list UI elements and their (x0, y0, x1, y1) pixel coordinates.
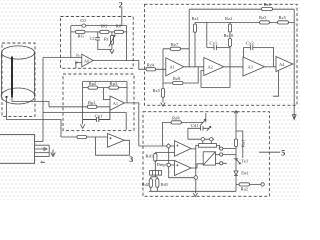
box 2 (charge amplifier) dashed border (61, 17, 134, 69)
svg-text:In: In (76, 54, 79, 58)
wire: comp1 output to block (191, 145, 199, 175)
Rd4 adjust arrow (200, 119, 206, 126)
wire: divider bottoms to rail (151, 187, 158, 191)
wire: ref to divider split (151, 175, 158, 179)
svg-text:A1: A1 (170, 65, 175, 70)
ground under Rf (98, 47, 114, 54)
resistor Rp1 (87, 105, 97, 108)
capacitor Cp1 wire (83, 107, 110, 122)
wire: box4 column left (Rz5 chain) (162, 49, 164, 103)
wire: A0 output to box4 via Rz4 (93, 61, 166, 70)
wire: rail up to column (235, 184, 237, 191)
wire: outer electrode down and under to follower (7, 97, 62, 137)
svg-text:Rz3: Rz3 (259, 15, 267, 20)
wire: box3 left riser (82, 82, 84, 125)
wire: Rz2/Rz10 chain (201, 22, 230, 87)
driver tiny mark (41, 161, 46, 163)
resistor Rp2 (88, 86, 98, 89)
svg-text:Dmp1: Dmp1 (157, 162, 169, 167)
wire: A3 output to A4 (265, 66, 277, 68)
wire: bottom rail (149, 190, 236, 192)
wire: row T top (189, 8, 294, 10)
svg-text:C0: C0 (80, 18, 86, 23)
svg-text:Rd2: Rd2 (142, 182, 149, 187)
svg-text:CG: CG (90, 36, 97, 41)
wire: Rd4 row (162, 121, 203, 123)
svg-text:Rf: Rf (104, 36, 109, 41)
wire: A4 output and output arrow (292, 9, 296, 119)
Cd1 end tick (207, 126, 211, 131)
svg-text:A1: A1 (113, 101, 118, 106)
wire: comp1 lower input / Rd1 top (155, 152, 174, 154)
svg-text:Rd1: Rd1 (146, 154, 154, 159)
svg-text:2: 2 (119, 0, 123, 9)
svg-text:Rz5: Rz5 (279, 15, 287, 20)
wire: collector branch (236, 131, 243, 158)
ground under Rz5 (161, 103, 165, 107)
capacitor Cy1 feedback (207, 45, 230, 50)
resistor Rd2 vertical (149, 179, 152, 188)
svg-text:Cy2: Cy2 (246, 41, 254, 46)
wire: circle to rail (195, 179, 197, 191)
comp2 plus mark (176, 164, 178, 166)
svg-text:In: In (75, 61, 78, 65)
comp1 plus mark (176, 144, 178, 146)
wire: label-5 leader (259, 151, 280, 153)
svg-text:Rp2: Rp2 (89, 81, 97, 86)
follower op-amp below box3 (108, 134, 125, 148)
wire: row S (195, 21, 294, 23)
wire: column mid (235, 147, 237, 171)
driver pin wire 5 (35, 156, 50, 158)
wire: block-2 leader line (121, 8, 123, 26)
svg-text:3: 3 (129, 155, 133, 164)
node circle P1 (201, 138, 204, 141)
wire: flat block to circle and column (217, 145, 237, 148)
driver pin bus vertical (48, 145, 50, 156)
follower input resistor (77, 135, 87, 138)
wire: supply drop to column (235, 118, 237, 140)
capacitor C0 (82, 24, 86, 27)
resistor R0 (114, 30, 123, 33)
svg-text:Rp3: Rp3 (110, 81, 118, 86)
wire: box5 left riser (161, 122, 163, 146)
wire: switch outputs (215, 155, 236, 164)
svg-text:A0: A0 (84, 58, 89, 63)
driver pin wire 2 (35, 144, 50, 146)
svg-text:Rz2: Rz2 (225, 16, 233, 21)
diode De1 (234, 171, 238, 184)
wire: box3 input row Rp1 (49, 106, 110, 108)
comparator U1 (175, 141, 192, 156)
svg-text:Te1: Te1 (241, 159, 249, 164)
svg-text:Ra1: Ra1 (241, 139, 246, 147)
op-amp A3 (243, 57, 265, 76)
wire: diamond input row (139, 145, 167, 147)
wire: right feedback drop box2 (126, 26, 128, 61)
resistor Rz10 vertical (228, 39, 231, 47)
resistor Rz4 (146, 68, 156, 71)
sensor cylinder top ellipse (2, 46, 35, 59)
svg-text:Rd3: Rd3 (161, 182, 168, 187)
op-amp A0 (82, 54, 93, 67)
wire: center electrode to box3 input (12, 97, 49, 107)
svg-text:R0: R0 (116, 24, 122, 29)
resistor Rz2 vertical (228, 24, 231, 32)
resistor Rf (trimmer) (109, 32, 115, 50)
wire: A0 input line (43, 57, 82, 59)
capacitor CG (96, 32, 100, 47)
switch block with diagonal (203, 152, 215, 165)
sensor cylinder side walls (2, 53, 35, 97)
node circle sw2 (220, 162, 223, 165)
wire: long horizontal mid (43, 113, 126, 130)
wire: Rz8 row (163, 67, 198, 83)
resistor Rd1 vertical (154, 153, 157, 161)
op-amp A1 (box4) (166, 58, 184, 76)
capacitor Cd1 row (188, 126, 209, 139)
svg-text:Rz5: Rz5 (153, 88, 161, 93)
wire: diamond to comparator1 (171, 145, 175, 147)
resistor RG (left) (76, 30, 86, 33)
sensor cylinder bottom ellipse (1, 88, 35, 104)
wire: comp2 output to switch block (191, 164, 203, 168)
wire: block risers to circles (203, 141, 212, 144)
wire: sensor guard vertical to A0 and down (42, 58, 44, 142)
wire: left riser box2 (70, 26, 72, 58)
resistor Re2 (239, 183, 250, 186)
resistor Rz9 (278, 21, 289, 24)
svg-text:Rz4: Rz4 (147, 63, 155, 68)
svg-text:RG: RG (101, 24, 108, 29)
box 5 (comparator/output) dashed border (143, 112, 269, 197)
node circle comp1 down (194, 176, 198, 180)
wire: box3 outer feedback row (83, 81, 127, 83)
svg-text:Cp1: Cp1 (95, 113, 103, 118)
wire: row S riser to Cy1 (206, 22, 208, 47)
diamond node (166, 144, 170, 148)
svg-text:5: 5 (281, 149, 285, 158)
electrode terminal dot A (5, 96, 7, 98)
resistor Rd3 vertical (156, 179, 159, 188)
op-amp A1 (box3) (110, 96, 124, 110)
svg-text:Rz8: Rz8 (173, 76, 181, 81)
node circle right of flat block (220, 147, 223, 150)
node circle P2 (210, 138, 213, 141)
resistor Rd4 (171, 121, 181, 124)
resistor Rz5 vertical (161, 88, 164, 97)
svg-text:Rz10: Rz10 (224, 33, 234, 38)
resistor Rz8 (173, 81, 183, 84)
sensor center electrode bar (11, 57, 13, 96)
resistor Ra1 vertical (234, 139, 237, 147)
wire: circle to comparator2 (171, 164, 175, 166)
driver block (solid box) (0, 135, 35, 164)
feedback row top C0 wire (71, 25, 127, 27)
follower input wire (61, 136, 108, 138)
svg-text:A4: A4 (279, 62, 285, 67)
resistor Rz1 vertical (193, 24, 196, 32)
wire: Re2 row (236, 183, 261, 185)
svg-text:Cy1: Cy1 (210, 41, 218, 46)
node circle sw1 (220, 153, 223, 156)
driver pin wire 1 (35, 141, 43, 143)
op-amp A2 (204, 58, 224, 76)
svg-text:Rz7: Rz7 (171, 42, 179, 47)
svg-text:A2: A2 (208, 65, 213, 70)
svg-text:Rz6: Rz6 (264, 2, 272, 7)
ground arrow on rail (193, 191, 197, 196)
logic flat block (199, 144, 217, 148)
wire: A2 output to A3 (224, 66, 243, 68)
resistor Rz3 (260, 21, 270, 24)
svg-text:Rz1: Rz1 (192, 16, 200, 21)
capacitor Cy2 feedback (244, 45, 274, 67)
box 3 (filter) dashed border (63, 74, 134, 130)
box 4 (amplifier chain) dashed border (145, 4, 298, 105)
wire: mid node down to opamp (103, 88, 110, 100)
driver ground arrow (51, 150, 55, 157)
wire: A0 non-inverting stub (76, 62, 82, 68)
wire: A4 lower stub (273, 71, 279, 96)
resistor Rz7 (170, 47, 180, 50)
wire: A1 output to A2 (184, 66, 204, 68)
ground box3 (80, 124, 84, 128)
wire: Rz1 drop (194, 22, 196, 66)
resistor Rp3 (109, 86, 119, 89)
comparator U2 (175, 161, 192, 176)
wire: box3 output down to box5 (124, 103, 139, 146)
wire: circles row (188, 138, 214, 140)
svg-text:Cd1: Cd1 (191, 123, 199, 128)
svg-text:RG: RG (78, 34, 85, 39)
driver pin wire 4 (35, 152, 50, 154)
driver pin wire 3 with arrowhead (35, 148, 47, 151)
wire: Rz7 feedback row (163, 9, 189, 67)
follower feedback loop (96, 137, 130, 155)
reference element Dmp1 (150, 171, 162, 176)
resistor RG (mid) (100, 30, 109, 33)
svg-text:Rp1: Rp1 (88, 100, 96, 105)
resistor Rz6 (262, 7, 273, 10)
supply tick into box5 (234, 111, 238, 118)
wire: diamond chain down (169, 148, 195, 178)
svg-text:De1: De1 (241, 171, 249, 176)
electrode terminal dot B (11, 95, 13, 97)
node circle on comp2 input (167, 163, 171, 167)
wire: box3 top feedback row (83, 82, 127, 103)
follower plus mark (109, 137, 111, 139)
sensor enclosure box 1 (2, 43, 35, 116)
svg-text:A3: A3 (248, 65, 254, 70)
op-amp A4 (276, 57, 293, 72)
wire: comp2 upper input tap (155, 160, 174, 162)
wire: Rd1 to ref component (154, 153, 156, 171)
transistor Te1 (234, 159, 241, 164)
svg-text:Rd4: Rd4 (172, 116, 180, 121)
wire: Rd4 riser to top (205, 113, 207, 122)
output terminal circle (261, 183, 264, 186)
feedback row RG/R0 wire (71, 31, 127, 33)
svg-text:Ra2: Ra2 (241, 187, 249, 192)
